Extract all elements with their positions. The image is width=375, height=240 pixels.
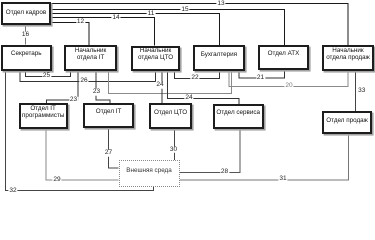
box Начальник отдела ЦТО <box>131 46 181 71</box>
label 11 <box>147 10 156 17</box>
label 25 <box>42 73 51 80</box>
label 12 <box>76 19 85 26</box>
wire 14 : Отдел кадров -> Начальник отдела ЦТО <box>52 18 155 46</box>
wire IT-Бухгалтерия (unlabeled) <box>109 71 232 93</box>
label 27 <box>104 150 113 157</box>
wire 25 : Секретарь -> Начальник отдела IT <box>26 71 71 77</box>
box Отдел ЦТО <box>149 103 193 129</box>
wire 26 : Секретарь -> Начальник отдела ЦТО <box>20 71 156 82</box>
wire 20 : Бухгалтерия -> Начальник отдела продаж <box>229 71 348 86</box>
box Отдел IT <box>83 103 134 128</box>
wire 32 : Секретарь -> Внешняя среда <box>6 71 154 191</box>
wire 24 : Начальник отдела ЦТО -> Отдел ЦТО <box>161 71 163 103</box>
label 30 <box>169 147 178 154</box>
label 20 <box>284 83 293 90</box>
box Секретарь <box>1 45 52 71</box>
label 23 <box>69 97 78 104</box>
box Отдел IT программисты <box>19 103 68 128</box>
wire 13 : Отдел кадров -> Начальник отдела продаж <box>52 4 349 46</box>
label 26 <box>79 78 88 85</box>
box Отдел кадров <box>1 2 51 25</box>
label 31 <box>278 176 287 183</box>
wire 29 : Отдел IT программисты -> Внешняя среда <box>46 129 119 180</box>
label 16 <box>21 31 30 38</box>
wire 27 : Отдел IT -> Внешняя среда <box>109 128 119 168</box>
wire 11 : Отдел кадров -> Бухгалтерия <box>52 14 220 46</box>
box Отдел сервиса <box>213 104 265 129</box>
wire 24b : Начальник отдела ЦТО -> Отдел сервиса <box>167 71 239 105</box>
label 23b <box>92 89 101 96</box>
box Начальник отдела IT <box>64 45 118 71</box>
wire 12 : Отдел кадров -> Начальник отдела IT <box>52 23 90 46</box>
label 24b <box>184 94 193 101</box>
box Бухгалтерия <box>193 45 246 71</box>
box Начальник отдела продаж <box>322 45 374 71</box>
wire 31 : Внешняя среда -> Отдел продаж <box>180 135 349 180</box>
label 15 <box>180 6 189 13</box>
label 21 <box>256 75 265 82</box>
label 29 <box>52 177 61 184</box>
wire 23 : Начальник отдела IT -> Отдел IT программисты <box>47 71 79 103</box>
wire 16 : Отдел кадров -> Секретарь <box>25 26 27 45</box>
box Отдел АТХ <box>258 45 310 70</box>
label 13 <box>216 0 225 7</box>
wire 30 : Отдел ЦТО -> Внешняя среда <box>174 129 176 160</box>
label 28 <box>220 169 229 176</box>
wire 28 : Отдел сервиса -> Внешняя среда <box>180 129 240 172</box>
label 32 <box>8 187 17 194</box>
wire 21 : Бухгалтерия -> Отдел АТХ <box>239 70 285 78</box>
box Отдел продаж <box>322 111 371 135</box>
label 22 <box>190 75 199 82</box>
wire 23b : Начальник отдела IT -> Отдел IT <box>96 71 110 103</box>
wire 33 : Начальник отдела продаж -> Отдел продаж <box>354 71 356 110</box>
wire 22 : Начальник отдела ЦТО -> Бухгалтерия <box>175 71 220 79</box>
wire 15 : Отдел кадров -> Отдел АТХ <box>52 10 285 46</box>
box Внешняя среда (dashed) <box>119 160 180 187</box>
label 33 <box>358 88 365 95</box>
label 24 <box>155 82 164 89</box>
label 14 <box>111 14 120 21</box>
